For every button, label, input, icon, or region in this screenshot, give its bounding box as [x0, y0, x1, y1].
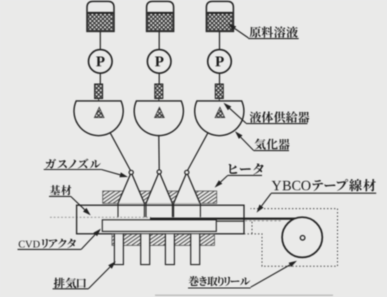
gas nozzle cone 3 — [174, 170, 200, 203]
tape dashed line (right) — [245, 220, 281, 222]
label CVDリアクタ (CVD reactor) — [18, 239, 82, 250]
exhaust tube 1 — [114, 234, 123, 265]
pump P3 — [208, 50, 232, 74]
vaporizer flask U1 — [74, 101, 123, 136]
liquid feeder inlet tube (hatched) unit 2 — [155, 84, 163, 99]
label 原料溶液 (raw material solution) — [248, 26, 298, 38]
liquid feeder inlet tube (hatched) unit 1 — [95, 84, 103, 99]
spray cone inside vaporizer 2 — [155, 107, 165, 117]
container C1 (raw material solution vessel) — [87, 1, 114, 31]
gas nozzle tubes into reactor — [117, 203, 119, 217]
wire vaporizer 3 to nozzle 3 — [188, 132, 209, 170]
container C2 (raw material solution vessel) — [147, 1, 174, 31]
label ヒータ (heater) — [228, 163, 264, 175]
gas nozzle cone 1 — [118, 170, 144, 203]
wire vaporizer 1 to nozzle 1 — [110, 132, 131, 170]
pump P2 — [147, 50, 171, 74]
vaporizer flask U3 — [195, 101, 244, 136]
label ガスノズル (gas nozzle) — [44, 159, 102, 170]
wire container C2 to pump P2 — [158, 31, 160, 49]
feed line into vaporizer 3 — [218, 99, 220, 108]
leader arrow to substrate — [71, 196, 91, 215]
leader arrow to feeder inlet 3 — [224, 103, 247, 123]
label 気化器 (vaporizer) — [253, 139, 289, 151]
leader arrow to tape — [257, 194, 271, 213]
heater (top hatched strip) — [103, 191, 217, 203]
feed line into vaporizer 2 — [158, 99, 160, 108]
label 巻き取りリール (take-up reel) — [188, 276, 251, 288]
wire pump P3 to feeder inlet — [219, 73, 221, 84]
wire container C1 to pump P1 — [99, 31, 101, 49]
wire vaporizer 2 to nozzle 2 — [158, 135, 160, 170]
tape exit slot bottom line — [216, 220, 244, 222]
label 液体供給器 (liquid feeder) — [246, 111, 309, 123]
heater (bottom hatched strip) — [112, 234, 215, 246]
gas nozzle cone 2 — [146, 170, 172, 204]
label 排気口 (exhaust port) — [53, 278, 89, 289]
take-up reel — [282, 217, 322, 257]
feed line into vaporizer 1 — [98, 99, 100, 108]
take-up chamber left dotted edge — [251, 222, 253, 234]
leader arrow to top heater — [215, 176, 228, 188]
vaporizer flask U2 — [134, 101, 183, 136]
label YBCOテープ線材 (YBCO tape wire) — [271, 179, 376, 193]
leader arrow to vaporizer 3 — [235, 131, 253, 150]
wire pump P1 to feeder inlet — [99, 73, 101, 84]
exhaust tube 3 — [165, 234, 174, 265]
tape path dashed line (left) — [50, 216, 151, 218]
leader arrow to reel — [251, 261, 297, 287]
wire pump P2 to feeder inlet — [158, 73, 160, 84]
exhaust tube 2 — [141, 234, 150, 265]
leader arrow to nozzle 1 — [101, 170, 128, 178]
label 基材 (substrate) — [49, 185, 71, 196]
spray cone inside vaporizer 3 — [215, 107, 225, 117]
liquid feeder inlet tube (hatched) unit 3 — [215, 84, 223, 99]
leader arrow to exhaust tube 1 — [89, 261, 116, 288]
wire container C3 to pump P3 — [219, 31, 221, 49]
scan artifact line (bottom) — [155, 294, 333, 296]
substrate / YBCO tape (thick line) — [150, 218, 296, 220]
leader arrow to reactor — [81, 229, 101, 250]
pump P1 — [89, 50, 113, 74]
CVD reactor outer tube — [77, 205, 244, 234]
substrate holder inside reactor — [102, 220, 216, 232]
leader arrow to container C3 — [228, 24, 249, 38]
spray cone inside vaporizer 1 — [94, 107, 104, 117]
exhaust tube 4 — [191, 234, 200, 265]
take-up chamber (dotted outline) — [244, 209, 338, 267]
container C3 (raw material solution vessel) — [206, 1, 233, 31]
